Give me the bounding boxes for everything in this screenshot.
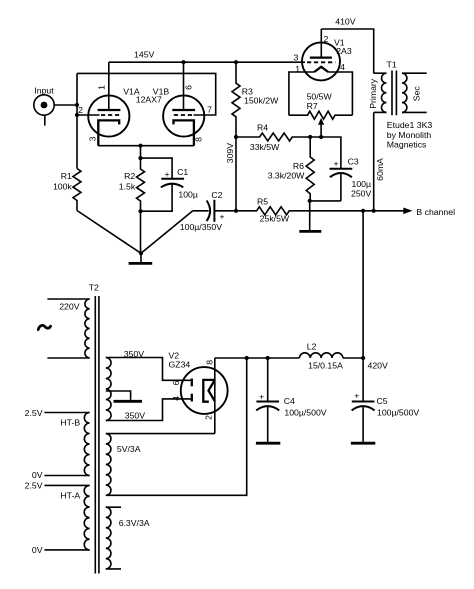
T1 primary lead bottom (374, 111, 387, 113)
svg-text:7: 7 (207, 105, 212, 115)
node junction 420V riser on B line (361, 209, 365, 213)
svg-text:by Monolith: by Monolith (387, 130, 432, 140)
svg-text:25k/5W: 25k/5W (260, 214, 290, 224)
resistor R5 (236, 207, 404, 215)
wire R6/C3 bus (310, 200, 341, 202)
svg-text:R1: R1 (61, 171, 72, 181)
ground center tap (114, 400, 143, 403)
node junction V1B plate on rail (181, 60, 185, 64)
T2 220V primary winding (85, 299, 90, 358)
svg-text:Sec: Sec (412, 86, 422, 102)
svg-text:100µ/350V: 100µ/350V (180, 222, 222, 232)
svg-text:15/0.15A: 15/0.15A (308, 361, 343, 371)
svg-text:0V: 0V (32, 545, 43, 555)
svg-text:100µ/500V: 100µ/500V (284, 408, 326, 418)
wire HT top 350V lead (106, 358, 191, 381)
svg-text:HT-B: HT-B (60, 418, 80, 428)
V1A grid dashes (101, 114, 121, 116)
V2 filament (203, 380, 215, 402)
svg-text:2.5V: 2.5V (25, 408, 43, 418)
wire L2 right to 420V node (343, 357, 363, 359)
svg-text:Primary: Primary (368, 78, 378, 109)
svg-text:R5: R5 (257, 196, 268, 206)
svg-text:150k/2W: 150k/2W (244, 96, 279, 106)
svg-text:60mA: 60mA (375, 158, 385, 181)
node junction R3/R4 (234, 135, 238, 139)
svg-text:R7: R7 (307, 101, 318, 111)
V1B cathode (174, 120, 194, 145)
svg-text:2: 2 (323, 34, 328, 44)
node junction C4 (266, 356, 270, 360)
node 410V rail (321, 29, 373, 73)
svg-text:220V: 220V (59, 302, 79, 312)
svg-text:4: 4 (171, 396, 181, 401)
V1 plate (310, 56, 332, 58)
svg-text:6: 6 (183, 85, 193, 90)
T2 HT-B winding (84, 413, 89, 476)
node junction 420V (361, 356, 365, 360)
svg-text:C1: C1 (177, 167, 188, 177)
capacitor C1 (141, 179, 185, 211)
svg-text:100µ: 100µ (352, 179, 372, 189)
V1A plate lead wire (108, 62, 110, 110)
node junction C2/R5 (234, 209, 238, 213)
svg-text:+: + (333, 159, 338, 169)
svg-text:2: 2 (78, 105, 83, 115)
V1B plate (172, 109, 195, 111)
svg-text:GZ34: GZ34 (169, 360, 191, 370)
svg-text:1: 1 (97, 85, 107, 90)
node junction R6 top (308, 135, 312, 139)
svg-text:C3: C3 (348, 157, 359, 167)
wire 5V top lead to pin2 (106, 433, 215, 435)
svg-text:B channel: B channel (416, 207, 455, 217)
T1 secondary leads (402, 73, 427, 112)
svg-text:T1: T1 (387, 59, 397, 69)
wire 5V bottom lead riser (106, 358, 247, 495)
svg-text:+: + (354, 391, 359, 401)
T2 core (95, 296, 99, 574)
node junction ground (139, 251, 143, 255)
svg-text:309V: 309V (225, 143, 235, 163)
svg-text:5V/3A: 5V/3A (117, 444, 141, 454)
wire 309V segment (235, 137, 237, 211)
wire rectifier output line (215, 357, 300, 359)
ground R6/C3 (299, 201, 321, 232)
wire cathode bus (98, 145, 194, 147)
tube V1 2A3 envelope (302, 42, 340, 80)
svg-text:R2: R2 (124, 171, 135, 181)
T1 primary winding (382, 73, 387, 112)
V1B plate lead wire (183, 62, 185, 110)
svg-text:C4: C4 (284, 396, 295, 406)
wire C1 top branch (141, 158, 173, 178)
svg-text:8: 8 (205, 360, 215, 365)
svg-text:1.5k: 1.5k (119, 182, 136, 192)
ground C4 (256, 442, 280, 445)
capacitor C5 (352, 358, 375, 442)
svg-text:HT-A: HT-A (60, 491, 80, 501)
svg-text:Input: Input (34, 85, 54, 95)
resistor R4 (236, 133, 341, 169)
svg-text:+: + (259, 391, 264, 401)
node junction jack/bus (75, 103, 79, 107)
potentiometer R7 (289, 111, 353, 119)
wire HT bottom 350V lead (106, 399, 191, 421)
wire top link to V1B grid (77, 73, 216, 115)
node junction 5V riser (245, 356, 249, 360)
T2 5V winding (106, 434, 111, 496)
node junction R6/C3/ground (308, 199, 312, 203)
wire jack to grid bus (54, 104, 77, 106)
transformer T1 (374, 71, 427, 116)
T2 6.3V stubs (106, 507, 121, 569)
T2 HT-A winding (84, 485, 89, 550)
T2 HT winding 350-0-350 (106, 358, 111, 421)
T2 HT-B leads (44, 413, 89, 476)
svg-text:50/5W: 50/5W (307, 91, 333, 101)
ground C5 (351, 442, 375, 445)
V1A cathode (98, 120, 119, 145)
svg-text:350V: 350V (125, 411, 145, 421)
svg-text:L2: L2 (307, 341, 317, 351)
wire V1A grid lead (77, 114, 100, 116)
resistor R1 (73, 169, 81, 211)
svg-text:12AX7: 12AX7 (136, 94, 162, 104)
node junction R3 top on rail (234, 60, 238, 64)
tube V1B envelope (163, 95, 204, 136)
resistor R6 (306, 137, 314, 201)
node junction wiper on R4 line (319, 135, 323, 139)
svg-text:250V: 250V (351, 188, 371, 198)
V2 plate pin4 bar (191, 394, 193, 402)
wire 420V riser (362, 211, 364, 358)
V1 filament (314, 67, 328, 72)
wire filament right to R7 (328, 72, 352, 115)
svg-text:3: 3 (293, 53, 298, 63)
wire V2 through line pin8 pin2 (214, 358, 216, 434)
wire R1 to ground diagonal (77, 211, 141, 254)
svg-text:+: + (220, 212, 225, 222)
wire filament left to R7 (289, 72, 314, 115)
R7 wiper arrow (318, 118, 324, 137)
label AC tilde (38, 325, 50, 329)
svg-text:3.3k/20W: 3.3k/20W (268, 171, 305, 181)
wire 60mA (373, 112, 375, 210)
svg-text:100µ: 100µ (178, 190, 198, 200)
wire HT center tap (106, 391, 131, 400)
node B channel arrow (403, 208, 412, 215)
T2 6.3V winding (106, 507, 111, 569)
svg-text:100k: 100k (53, 182, 72, 192)
svg-text:3: 3 (87, 136, 97, 141)
tube V2 GZ34 envelope (181, 367, 228, 414)
svg-text:6: 6 (171, 380, 181, 385)
svg-text:410V: 410V (335, 17, 355, 27)
V2 plate pin6 bar (191, 379, 193, 387)
svg-text:Etude1 3K3: Etude1 3K3 (387, 120, 433, 130)
T1 core (392, 71, 396, 116)
V1B grid dashes (172, 114, 192, 116)
capacitor C4 (256, 358, 279, 442)
svg-text:0V: 0V (32, 470, 43, 480)
input jack J (34, 95, 54, 126)
resistor R2 (137, 158, 145, 211)
svg-text:4: 4 (340, 62, 345, 72)
svg-text:145V: 145V (134, 50, 154, 60)
node junction V1A grid tap (75, 113, 79, 117)
node junction R2/C1 top (138, 156, 142, 160)
svg-text:2.5V: 2.5V (25, 481, 43, 491)
T1 secondary winding (402, 73, 407, 112)
transformer T2 (44, 296, 121, 574)
svg-text:+: + (164, 169, 169, 179)
T2 220V leads (47, 299, 89, 358)
tube V1A envelope (88, 95, 129, 136)
svg-text:2A3: 2A3 (336, 46, 352, 56)
wire R2 bottom to ground (140, 211, 142, 253)
node 145V rail (109, 61, 305, 63)
V1 plate lead wire (320, 29, 322, 58)
svg-text:6.3V/3A: 6.3V/3A (119, 518, 150, 528)
node junction cathode bus / R2 (138, 144, 142, 148)
V1 grid dashes (307, 61, 335, 63)
svg-text:R6: R6 (293, 161, 304, 171)
svg-text:T2: T2 (89, 282, 99, 292)
inductor L2 (299, 353, 342, 358)
svg-text:8: 8 (193, 137, 203, 142)
ground main (129, 253, 153, 263)
svg-text:100µ/500V: 100µ/500V (377, 408, 419, 418)
node junction R2/C1 bottom (138, 209, 142, 213)
capacitor C2 (141, 200, 236, 254)
svg-text:Magnetics: Magnetics (387, 140, 427, 150)
capacitor C3 (330, 169, 353, 201)
svg-text:R4: R4 (257, 122, 268, 132)
T1 primary lead top (374, 72, 387, 74)
wire grid bus vertical (76, 73, 78, 168)
node junction 60mA on B line (372, 209, 376, 213)
svg-text:420V: 420V (368, 361, 388, 371)
wire cathode to R2/C1 split (140, 146, 142, 158)
svg-text:33k/5W: 33k/5W (250, 142, 280, 152)
T2 HT-A leads (44, 485, 89, 550)
V1A plate (98, 109, 121, 111)
resistor R3 (232, 62, 240, 137)
svg-text:2: 2 (204, 415, 214, 420)
svg-text:C5: C5 (377, 396, 388, 406)
svg-text:C2: C2 (211, 190, 222, 200)
